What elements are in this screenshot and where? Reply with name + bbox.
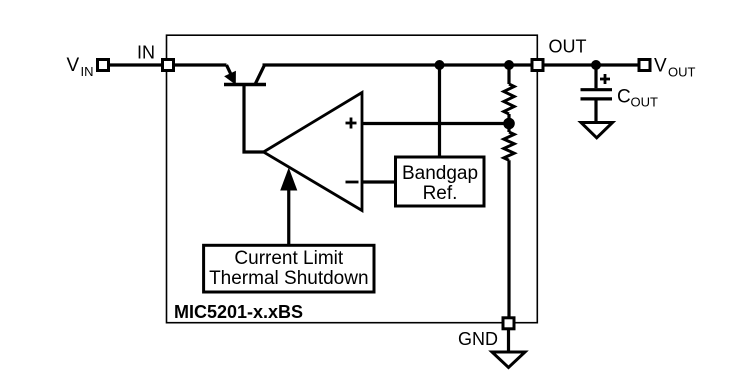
wire op-amp minus input to bandgap — [362, 180, 396, 183]
label COUT — [617, 87, 658, 110]
wire OUT pin to VOUT terminal — [538, 63, 645, 66]
node VIN label — [67, 55, 94, 79]
capacitor COUT — [581, 90, 613, 99]
wire capacitor to ground — [594, 99, 597, 123]
wire op-amp plus input to resistor divider tap — [362, 122, 509, 125]
svg-text:OUT: OUT — [668, 65, 696, 80]
op-amp minus input label — [346, 181, 359, 184]
ground symbol at GND pin — [492, 352, 525, 368]
pin VOUT terminal — [639, 60, 650, 71]
wire top rail to resistor R1 — [507, 65, 510, 84]
transistor Q1 base bar — [224, 83, 266, 86]
bandgap reference U2 — [396, 157, 485, 206]
transistor Q1 collector diagonal — [255, 65, 265, 85]
wire top rail collector to OUT pin — [263, 63, 538, 66]
pin VIN terminal — [98, 60, 109, 71]
svg-text:V: V — [67, 55, 80, 76]
resistor R1 — [504, 84, 514, 114]
svg-text:OUT: OUT — [631, 95, 659, 110]
pin GND on IC — [503, 318, 514, 329]
wire GND pin to ground symbol — [507, 323, 510, 352]
op-amp plus input label — [346, 118, 357, 129]
svg-text:C: C — [617, 87, 631, 108]
capacitor COUT polarity plus — [600, 74, 610, 84]
svg-text:Ref.: Ref. — [423, 183, 458, 204]
wire transistor base down to op-amp output — [244, 85, 264, 153]
junction top rail / resistor divider — [504, 60, 514, 70]
transistor Q1 emitter diagonal with arrow — [225, 65, 235, 84]
pin IN on IC — [163, 60, 174, 71]
pin OUT on IC — [532, 60, 543, 71]
wire R1 to tap — [507, 114, 510, 132]
junction top rail / bandgap supply — [435, 60, 445, 70]
svg-text:MIC5201-x.xBS: MIC5201-x.xBS — [174, 302, 303, 322]
wire R2 to GND pin — [507, 160, 510, 323]
svg-text:Thermal Shutdown: Thermal Shutdown — [209, 268, 368, 289]
svg-text:GND: GND — [458, 329, 498, 349]
IC outline MIC5201 — [167, 35, 538, 323]
svg-text:Current Limit: Current Limit — [234, 248, 343, 269]
op-amp U1 error amplifier — [264, 93, 363, 211]
wire current limit block to op-amp (arrow) — [280, 168, 297, 246]
wire VIN to transistor emitter — [103, 63, 227, 66]
resistor R2 — [504, 132, 514, 160]
node VOUT label — [654, 56, 696, 80]
wire bandgap supply from top rail — [438, 65, 441, 157]
junction output / capacitor — [591, 60, 601, 70]
svg-text:V: V — [654, 56, 667, 77]
current limit / thermal shutdown block U3 — [204, 245, 374, 292]
svg-text:Bandgap: Bandgap — [402, 163, 478, 184]
svg-text:IN: IN — [81, 64, 94, 79]
svg-text:IN: IN — [137, 43, 155, 63]
svg-text:OUT: OUT — [549, 37, 587, 57]
wire output node to capacitor — [594, 65, 597, 88]
junction feedback tap — [503, 118, 515, 130]
ground symbol at COUT — [581, 123, 613, 138]
